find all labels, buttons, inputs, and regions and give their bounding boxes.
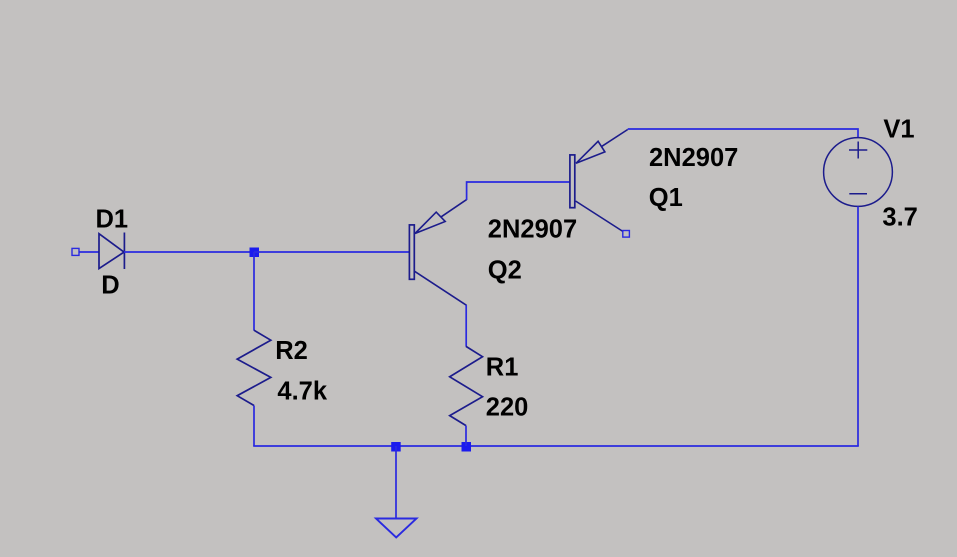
wire anode stub — [79, 251, 99, 253]
transistor Q2 — [409, 200, 466, 306]
wire ground stub — [395, 446, 397, 519]
svg-text:V1: V1 — [883, 116, 914, 144]
svg-text:2N2907: 2N2907 — [488, 216, 577, 244]
wire node down to R2 — [253, 252, 255, 331]
svg-text:Q1: Q1 — [649, 184, 683, 212]
junction node at ground tap — [391, 442, 401, 452]
svg-text:4.7k: 4.7k — [277, 378, 327, 406]
svg-text:220: 220 — [486, 394, 529, 422]
junction node at R1 bottom — [462, 442, 472, 452]
voltage source V1 — [824, 138, 893, 207]
wire R2 bottom to rail — [253, 406, 255, 447]
svg-text:R1: R1 — [486, 353, 519, 381]
wire Q2 collector to R1 — [465, 305, 467, 347]
port terminal (diode D1 anode pin) — [72, 248, 79, 255]
wire diode to node — [124, 251, 254, 253]
wire node to Q2 base — [254, 251, 410, 253]
ground symbol — [376, 519, 417, 538]
svg-text:3.7: 3.7 — [882, 204, 917, 232]
svg-text:D: D — [101, 271, 119, 299]
wire V1 bottom to rail — [857, 207, 859, 447]
wire Q2 emitter to Q1 base — [467, 182, 570, 200]
svg-text:Q2: Q2 — [488, 257, 522, 285]
transistor Q1 — [570, 130, 628, 232]
port terminal (Q1 collector pin) — [623, 231, 630, 238]
resistor R1 — [450, 346, 483, 425]
svg-text:2N2907: 2N2907 — [649, 144, 738, 172]
junction node at diode/R2/Q2 base — [250, 248, 260, 258]
wire R1 bottom to rail — [465, 426, 467, 446]
svg-text:D1: D1 — [96, 205, 129, 233]
wire ground rail — [253, 445, 859, 447]
resistor R2 — [237, 330, 271, 405]
svg-text:R2: R2 — [275, 337, 308, 365]
wire Q1 emitter to V1 top — [628, 129, 858, 138]
diode D1 — [99, 233, 124, 270]
